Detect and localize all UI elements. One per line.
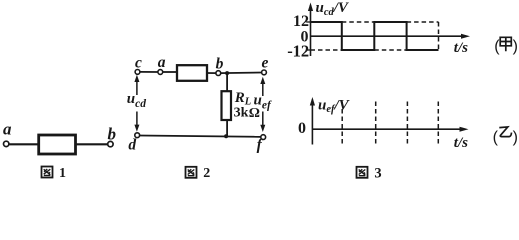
svg-text:a: a — [3, 120, 12, 139]
svg-text:(: ( — [494, 38, 500, 55]
svg-text:c: c — [135, 55, 142, 72]
wire box to b (fig2) — [207, 72, 216, 74]
terminal f — [261, 135, 266, 140]
voltage arrow down toward d — [134, 112, 139, 132]
caption 图 1 — [42, 166, 67, 181]
svg-text:2: 2 — [203, 166, 210, 179]
y-axis u_ef — [310, 97, 315, 145]
terminal c — [135, 70, 140, 75]
dashed vertical t3 (bottom) — [406, 102, 408, 147]
label (乙) — [493, 127, 518, 146]
wire b to e — [221, 72, 263, 75]
voltage arrow up toward e — [260, 77, 265, 96]
svg-text:t/s: t/s — [454, 135, 468, 151]
svg-text:-12: -12 — [287, 42, 309, 61]
label (甲) — [494, 37, 518, 55]
dashed vertical t4 (bottom) — [437, 102, 439, 147]
caption 图 3 — [357, 165, 382, 181]
node a (fig2) — [158, 70, 163, 75]
voltage arrow up toward c — [134, 75, 139, 95]
svg-text:d: d — [128, 136, 136, 153]
svg-text:b: b — [216, 56, 224, 73]
svg-text:a: a — [158, 54, 166, 71]
terminal a (fig1) — [3, 141, 8, 146]
bottom wire d to f — [139, 136, 261, 137]
wire junction down to RL — [226, 73, 228, 91]
wire a to box (fig2) — [163, 71, 178, 73]
svg-text:): ) — [513, 129, 518, 146]
resistor box (fig1) — [39, 135, 76, 154]
svg-text:): ) — [513, 38, 518, 55]
junction dot top of RL — [225, 71, 229, 75]
dashed vertical t1 (bottom) — [341, 102, 343, 147]
svg-text:1: 1 — [59, 166, 66, 179]
x-axis t (bottom) — [312, 127, 468, 132]
dashed -12 level — [311, 49, 342, 51]
wire RL to bottom — [226, 120, 228, 136]
wire resistor to b (fig1) — [76, 143, 108, 145]
resistor box (fig2) — [177, 65, 207, 81]
dashed +12 level — [342, 21, 375, 23]
terminal b (fig1) — [108, 141, 113, 146]
dashed vertical at 4T — [438, 22, 440, 50]
svg-text:e: e — [262, 54, 269, 71]
square wave solid — [311, 22, 439, 50]
svg-text:t/s: t/s — [454, 40, 468, 56]
y-axis u_cd — [308, 3, 313, 57]
voltage arrow down toward f — [260, 112, 265, 133]
svg-text:3k: 3k — [234, 106, 249, 121]
resistor RL box — [222, 91, 232, 120]
caption 图 2 — [186, 166, 211, 181]
x-axis t (top) — [311, 34, 471, 39]
junction dot bottom of RL — [224, 134, 228, 138]
wire a to resistor (fig1) — [9, 143, 38, 145]
svg-text:(: ( — [493, 129, 499, 146]
tick -12 — [306, 49, 310, 51]
wire c to a — [140, 71, 158, 73]
svg-text:3: 3 — [374, 165, 381, 179]
tick +12 — [306, 21, 310, 23]
svg-text:uef/V: uef/V — [318, 98, 351, 116]
terminal d — [135, 133, 140, 138]
dashed vertical t2 (bottom) — [375, 102, 377, 147]
node b (fig2) — [216, 71, 221, 76]
terminal e — [262, 70, 267, 75]
svg-text:0: 0 — [298, 120, 306, 137]
svg-text:b: b — [108, 125, 117, 144]
